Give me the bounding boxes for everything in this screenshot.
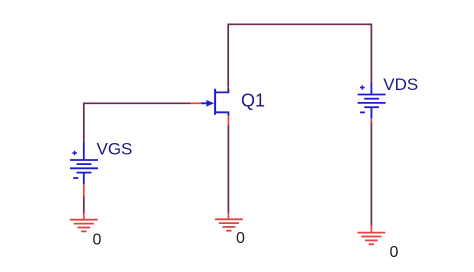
svg-text:Q1: Q1	[241, 91, 265, 111]
svg-text:0: 0	[93, 231, 102, 248]
svg-text:0: 0	[236, 230, 245, 247]
svg-text:VGS: VGS	[97, 140, 133, 159]
svg-text:VDS: VDS	[383, 75, 418, 94]
svg-text:0: 0	[390, 244, 399, 261]
